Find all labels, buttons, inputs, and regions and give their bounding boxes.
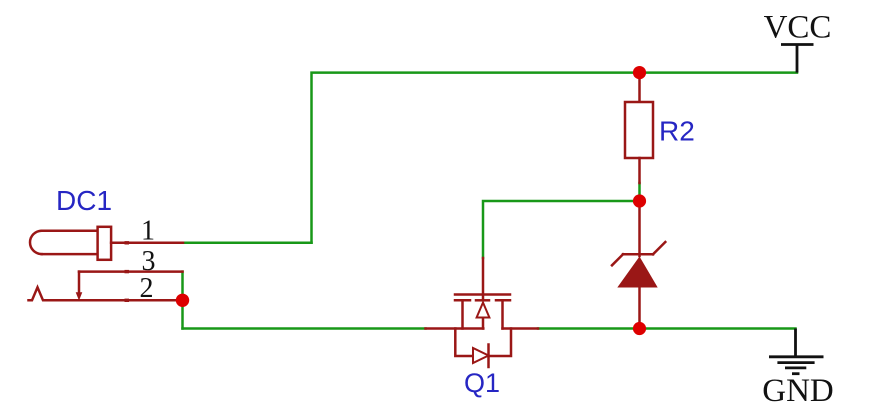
svg-text:2: 2	[140, 273, 154, 304]
svg-text:Q1: Q1	[464, 368, 500, 398]
svg-text:GND: GND	[762, 373, 834, 409]
svg-text:DC1: DC1	[56, 185, 112, 216]
svg-text:R2: R2	[659, 116, 695, 147]
svg-text:VCC: VCC	[764, 10, 832, 46]
svg-text:1: 1	[141, 215, 155, 246]
